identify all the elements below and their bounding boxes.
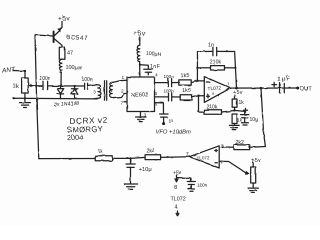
title text SM0RGY: [67, 124, 103, 134]
capacitor C7 1n feedback: [198, 43, 235, 56]
U1 pin6 wire to VFO coupling: [155, 102, 164, 114]
svg-text:OUT: OUT: [300, 87, 312, 93]
resistor R10 2k2: [145, 149, 161, 160]
svg-text:VFO +10dBm: VFO +10dBm: [156, 130, 191, 136]
svg-text:100μH: 100μH: [65, 64, 82, 71]
resistor R7 210k bias to non-inverting input: [199, 96, 235, 115]
resistor R11 1k: [95, 149, 112, 161]
wire U2B pin6 to pot wiper: [219, 161, 250, 174]
wire ANT to potentiometer top: [14, 70, 27, 78]
svg-text:100n: 100n: [164, 88, 175, 93]
U2 pin4 to ground note: [175, 205, 179, 216]
resistor R6 1k bias upper: [232, 99, 244, 112]
svg-text:+5v: +5v: [173, 170, 182, 176]
wire feedback left vertical: [196, 52, 198, 81]
wire secondary bottom to U1 pin2: [113, 89, 127, 98]
svg-text:TL072: TL072: [196, 155, 210, 161]
U1 pin5 wire: [155, 91, 168, 97]
svg-text:2k2: 2k2: [147, 149, 155, 155]
svg-text:4: 4: [155, 73, 158, 79]
op-amp U2B TL072: [186, 144, 224, 169]
node ANT input label: [1, 66, 17, 75]
wire R9 to U2B pin5: [221, 146, 234, 148]
node VFO input label: [156, 130, 191, 136]
svg-text:+5v: +5v: [58, 16, 70, 23]
svg-text:a: a: [212, 92, 215, 96]
svg-text:1n: 1n: [168, 118, 174, 123]
svg-text:5: 5: [221, 144, 224, 150]
label 2x 1N4148: [53, 101, 79, 108]
svg-text:NE602: NE602: [131, 92, 148, 99]
svg-text:BC547: BC547: [66, 34, 88, 42]
U1 pin7 stub: [121, 101, 128, 107]
wire C2 to transformer primary: [88, 85, 97, 86]
svg-text:TL072: TL072: [171, 197, 186, 203]
title text 2004: [67, 133, 83, 143]
wire L2 to U1 pin8: [139, 62, 141, 78]
potentiometer P2 offset: [251, 167, 256, 183]
svg-text:5: 5: [155, 91, 158, 97]
svg-text:1k: 1k: [239, 100, 245, 106]
svg-text:4: 4: [175, 205, 178, 211]
resistor R9 2k2: [234, 140, 250, 150]
wire secondary top to U1 pin1: [113, 75, 127, 82]
capacitor C4 100n: [164, 74, 175, 87]
svg-text:1k5: 1k5: [182, 87, 191, 94]
svg-text:1k: 1k: [13, 84, 19, 90]
transformer T1 core: [105, 81, 107, 100]
wire pot wiper to C1: [35, 85, 43, 87]
svg-text:+10μ: +10μ: [139, 167, 152, 173]
wire pot bottom to ground rail: [24, 93, 26, 100]
wire U2B output pin7: [161, 156, 190, 159]
transistor Q1 BC547: [54, 28, 89, 47]
svg-text:TL072: TL072: [207, 85, 221, 92]
svg-text:100n: 100n: [82, 77, 93, 83]
wire ground rail: [13, 97, 98, 99]
wire P2 to ground: [252, 183, 254, 188]
diode D2 1N4148: [71, 85, 77, 99]
wire R10 to C10 junction: [112, 157, 145, 159]
node OUT: [296, 87, 312, 93]
svg-text:1: 1: [227, 82, 230, 87]
svg-text:100μH: 100μH: [146, 51, 162, 59]
svg-text:10μ: 10μ: [250, 117, 259, 123]
svg-text:7: 7: [121, 101, 124, 107]
svg-text:1k: 1k: [98, 149, 104, 155]
svg-text:1: 1: [122, 75, 125, 81]
svg-text:6: 6: [221, 160, 224, 166]
ground G3: [229, 125, 239, 129]
resistor R8 1k bias lower: [232, 114, 243, 125]
wire R4 to opamp non-inverting input: [192, 95, 204, 98]
+5v supply bias: [233, 90, 243, 99]
title text DCRX v2: [69, 116, 108, 126]
capacitor C3 1nF bypass: [141, 64, 161, 75]
svg-text:100n: 100n: [164, 74, 175, 79]
wire AGC corner to R9: [250, 146, 266, 149]
capacitor C8 10u bias bypass: [235, 108, 259, 125]
U2 pin8 label: [174, 185, 177, 191]
+5v supply U2 power note: [173, 170, 182, 182]
wire output to AGC vertical: [261, 88, 265, 146]
capacitor C9 1uF output: [272, 75, 291, 93]
wire U2A output: [231, 87, 298, 90]
capacitor C5 100n: [164, 88, 175, 101]
IC U2 TL072 power label: [171, 197, 186, 203]
resistor R3 1k5: [172, 73, 192, 85]
+5v supply P2: [252, 158, 261, 167]
potentiometer R1 1k (RF attenuator): [13, 78, 35, 93]
ground G1: [20, 98, 31, 107]
wire base feedback line (long left vertical): [35, 35, 54, 159]
svg-text:4: 4: [110, 88, 113, 93]
op-amp U2A TL072: [204, 77, 230, 103]
svg-text:3: 3: [93, 90, 96, 95]
transformer T1 secondary winding: [109, 82, 113, 97]
capacitor C6 1n VFO: [160, 114, 174, 125]
inductor L2 100uH: [137, 45, 161, 62]
svg-text:100n: 100n: [40, 76, 51, 82]
diode D1 1N4148: [57, 86, 64, 99]
svg-text:210k: 210k: [207, 105, 218, 111]
svg-text:1μF: 1μF: [277, 75, 291, 83]
U1 pin3 to ground: [141, 112, 147, 119]
ground G2: [136, 117, 146, 122]
svg-text:2: 2: [121, 89, 124, 95]
svg-text:2004: 2004: [67, 133, 83, 143]
svg-text:2x 1N4148: 2x 1N4148: [53, 101, 79, 108]
svg-text:210k: 210k: [210, 60, 222, 66]
capacitor C11 100n decoupling: [178, 178, 208, 192]
inductor L1 100uH: [59, 59, 82, 72]
svg-text:1nF: 1nF: [150, 64, 160, 70]
capacitor C10 10u AGC: [126, 158, 152, 183]
svg-text:47: 47: [67, 51, 73, 57]
ground G5: [124, 184, 137, 189]
wire R11 to feedback line: [39, 158, 95, 160]
capacitor C2 100n: [82, 77, 93, 89]
U1 pin4 wire: [155, 73, 168, 83]
svg-text:1n: 1n: [208, 43, 214, 49]
svg-text:8: 8: [174, 185, 177, 191]
ground G4: [248, 188, 259, 193]
IC U1 NE602 mixer: [127, 77, 155, 112]
resistor R5 210k feedback: [197, 60, 235, 70]
resistor R2 47: [59, 47, 73, 59]
+5v supply U1: [134, 31, 146, 46]
resistor R4 1k5: [172, 87, 192, 100]
wire L1 to signal line junction: [60, 72, 62, 87]
wire feedback right vertical: [234, 52, 236, 89]
svg-text:1k5: 1k5: [180, 73, 189, 80]
svg-text:100n: 100n: [197, 183, 208, 188]
transformer T1 primary winding: [93, 85, 101, 99]
wire C1 to C2 (signal line): [48, 85, 84, 87]
svg-text:2k2: 2k2: [236, 140, 244, 146]
wire R3 to opamp inverting input: [191, 80, 204, 83]
+5v supply Q1: [58, 16, 70, 28]
capacitor C1 100n: [40, 76, 51, 89]
